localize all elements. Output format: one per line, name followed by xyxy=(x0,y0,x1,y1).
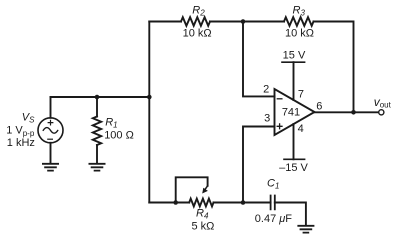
R4 wiper arrowhead xyxy=(202,188,208,194)
voltage source VS circle xyxy=(38,118,63,143)
svg-text:15 V: 15 V xyxy=(283,50,306,62)
wire pin 4 to -15V xyxy=(293,124,295,159)
svg-text:–15 V: –15 V xyxy=(279,162,308,174)
wire C1 to ground xyxy=(275,203,306,226)
svg-text:7: 7 xyxy=(298,88,304,100)
node junction R1 tap xyxy=(95,95,100,100)
resistor R1 xyxy=(93,117,101,146)
node junction rheostat wiper tap xyxy=(173,200,178,205)
svg-text:10 kΩ: 10 kΩ xyxy=(285,27,314,39)
svg-text:100 Ω: 100 Ω xyxy=(104,130,134,142)
svg-text:2: 2 xyxy=(263,83,269,95)
node junction source/left vertical xyxy=(147,95,152,100)
svg-text:741: 741 xyxy=(282,107,300,119)
wire R4 to C1 xyxy=(214,202,271,204)
svg-text:5 kΩ: 5 kΩ xyxy=(192,220,215,232)
op-amp minus input marking xyxy=(277,98,282,100)
R4 wiper loop xyxy=(176,177,208,202)
wire VS bottom stem xyxy=(50,143,52,164)
svg-text:3: 3 xyxy=(264,113,270,125)
wire source horizontal xyxy=(51,96,150,98)
capacitor C1 plates xyxy=(271,196,275,210)
potentiometer R4 zigzag xyxy=(189,199,213,207)
svg-text:4: 4 xyxy=(298,123,304,135)
svg-text:6: 6 xyxy=(316,100,322,112)
wire pin 7 to +15V xyxy=(293,62,295,100)
op-amp U1 741 triangle xyxy=(275,89,315,135)
node output junction xyxy=(351,110,356,115)
R4 wiper arrow shaft xyxy=(205,186,208,190)
resistor R3 xyxy=(284,17,314,26)
wire between R2 and R3 xyxy=(210,21,284,23)
wire non-inverting input (pin 3) xyxy=(243,127,275,203)
wire bottom left segment xyxy=(149,202,189,204)
ground under R1 xyxy=(89,164,104,171)
wire left vertical xyxy=(148,22,150,203)
ground under VS xyxy=(43,164,58,171)
VS minus sign xyxy=(48,138,53,140)
svg-text:0.47 μF: 0.47 μF xyxy=(255,213,292,225)
wire top right + right vertical down to output xyxy=(314,22,354,113)
ground right of C1 xyxy=(298,226,313,233)
wire R1 top stem xyxy=(96,97,98,117)
resistor R2 xyxy=(181,17,210,26)
output terminal circle xyxy=(379,110,384,115)
VS plus sign xyxy=(48,120,53,125)
wire R1 bottom stem xyxy=(96,145,98,163)
wire output pin 6 xyxy=(315,111,379,113)
node junction pin3 vertical / bottom wire xyxy=(241,200,246,205)
wire top from left vertical to R2 xyxy=(149,21,181,23)
svg-text:10 kΩ: 10 kΩ xyxy=(183,27,212,39)
node junction top (inverting feedback tap) xyxy=(241,19,246,24)
VS sine wave xyxy=(43,128,58,134)
negative supply -15 V xyxy=(284,158,305,160)
svg-text:1 kHz: 1 kHz xyxy=(7,137,35,149)
op-amp plus input marking xyxy=(277,124,282,129)
wire VS top stem xyxy=(50,97,52,118)
wire inverting input (pin 2) xyxy=(243,22,275,97)
